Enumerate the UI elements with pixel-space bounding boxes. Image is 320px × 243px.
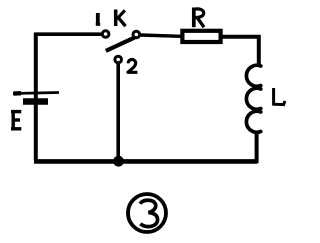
battery E xyxy=(13,93,59,102)
wire from terminal 2 down to junction xyxy=(116,63,120,160)
switch K pivot circle xyxy=(133,31,140,38)
wire left vertical (battery branch) xyxy=(34,33,38,161)
figure number circle xyxy=(128,194,166,232)
wire resistor to top right corner and down xyxy=(221,37,259,66)
wire inductor bottom to corner xyxy=(255,131,257,161)
wire switch pivot to resistor xyxy=(141,35,181,36)
figure number 3 xyxy=(140,200,157,226)
label R xyxy=(194,8,204,28)
switch terminal circle 2 xyxy=(115,56,122,63)
label 1 xyxy=(96,13,100,25)
label 2 xyxy=(128,60,137,73)
resistor R xyxy=(182,31,220,42)
label E xyxy=(11,110,21,129)
junction node dot xyxy=(113,156,124,167)
inductor L coil xyxy=(246,65,260,86)
wire top left (corner to switch terminal 1) xyxy=(34,32,101,36)
switch terminal circle 1 xyxy=(102,31,109,38)
label L xyxy=(274,88,285,105)
wire bottom xyxy=(34,159,257,164)
label K xyxy=(116,10,126,27)
switch K blade (open, between 1 and 2) xyxy=(106,38,135,51)
